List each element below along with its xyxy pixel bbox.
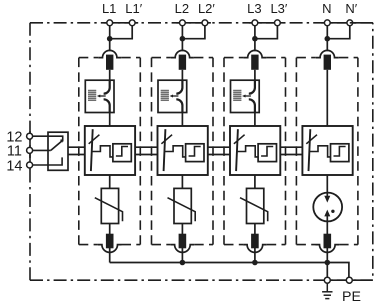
junction node L3 [252, 36, 258, 42]
wire spark gap to varistor channel 2 [181, 175, 183, 188]
thermal disconnector with status indicator channel 2 [158, 80, 187, 112]
terminal L3′ [275, 20, 281, 26]
protection module dashed box channel 2 [152, 57, 171, 59]
wire spark gap to varistor channel 3 [254, 175, 256, 188]
wire L2 terminal down to junction [181, 23, 183, 51]
remote signalling contact box [48, 132, 68, 170]
changeover contact arm [51, 141, 63, 151]
junction node bus channel 2 [180, 260, 186, 266]
wire varistor to bottom contact channel 1 [109, 224, 111, 235]
wire terminal 14 to NO contact [33, 157, 62, 165]
plug contact bottom channel 3 (thick bar) [251, 234, 259, 249]
terminal 12 [27, 133, 33, 139]
junction node N [325, 36, 331, 42]
svg-text:L2: L2 [175, 1, 189, 16]
triggered spark gap unit channel 2 [158, 126, 208, 175]
wire varistor to bottom contact channel 3 [254, 224, 256, 235]
terminal L2′ [202, 20, 208, 26]
bottom border solid segment to corner [327, 279, 373, 281]
terminal N [324, 20, 330, 26]
wire spark gap to N-PE gap channel 4 [326, 175, 328, 196]
svg-text:L2′: L2′ [198, 1, 215, 16]
svg-text:11: 11 [7, 144, 22, 160]
wire N′ to right border corner [350, 22, 373, 24]
wire N-PE gap to bottom contact channel 4 [326, 221, 328, 234]
wire terminal 11 to contact pivot [33, 149, 51, 151]
wire disconnector to spark gap channel 3 [254, 113, 256, 127]
protection module dashed box channel 4 [296, 57, 315, 59]
earth terminal [324, 277, 330, 283]
svg-text:N′: N′ [345, 1, 357, 16]
terminal PE [346, 277, 352, 283]
terminal 11 [27, 147, 33, 153]
svg-text:PE: PE [342, 289, 361, 304]
junction node L2 [180, 36, 186, 42]
protection module dashed box channel 1 [79, 57, 98, 59]
wire spark gap to varistor channel 1 [109, 175, 111, 188]
terminal L2 [180, 20, 186, 26]
protection module dashed box channel 3 [224, 57, 243, 59]
terminal L1 [107, 20, 113, 26]
wire contact to disconnector channel 3 [254, 70, 256, 81]
wire disconnector to spark gap channel 1 [109, 113, 111, 127]
wire L3-L3′ solid segment on top line [249, 22, 284, 24]
plug contact bottom channel 1 (thick bar) [106, 234, 114, 249]
svg-text:L3′: L3′ [270, 1, 287, 16]
wire L2′ terminal drop to junction [182, 23, 205, 39]
thermal disconnector with status indicator channel 1 [85, 80, 114, 112]
svg-text:L3: L3 [247, 1, 261, 16]
enclosure border (dash-dot outline of the protection device) [30, 22, 373, 24]
triggered spark gap unit channel 3 [230, 126, 280, 175]
junction node L1 [107, 36, 113, 42]
trigger bus wires linking spark gap units [68, 146, 85, 148]
wire L2-L2′ solid segment on top line [176, 22, 211, 24]
ground symbol [326, 283, 328, 291]
varistor channel 3 [247, 188, 264, 223]
junction node bus channel 3 [252, 260, 258, 266]
wire L1′ terminal drop to junction [110, 23, 133, 39]
wire bottom contact to PE bus channel 4 [326, 245, 328, 263]
varistor channel 2 [174, 188, 191, 223]
wire contact to disconnector channel 1 [109, 70, 111, 81]
plug contact top channel 4 (thick bar) [324, 55, 331, 70]
wire N′ terminal drop to junction [327, 23, 350, 39]
plug contact top channel 1 (thick bar) [106, 55, 113, 70]
triggered spark gap unit channel 1 [85, 126, 135, 175]
terminal 14 [27, 162, 33, 168]
wire bus down to earth terminal [326, 263, 328, 281]
wire bottom contact to PE bus channel 2 [181, 245, 183, 263]
terminal N′ [347, 20, 353, 26]
varistor channel 1 [101, 188, 118, 223]
wire varistor to bottom contact channel 2 [181, 224, 183, 235]
wire L1-L1′ solid segment on top line [104, 22, 139, 24]
plug contact top channel 2 (thick bar) [179, 55, 186, 70]
plug contact bottom channel 2 (thick bar) [179, 234, 187, 249]
wire disconnector to spark gap channel 2 [181, 113, 183, 127]
svg-text:N: N [322, 1, 331, 16]
thermal disconnector with status indicator channel 3 [231, 80, 260, 112]
terminal L1′ [129, 20, 135, 26]
wire L3 terminal down to junction [254, 23, 256, 51]
wire bottom contact to PE bus channel 3 [254, 245, 256, 263]
wire L3′ terminal drop to junction [255, 23, 278, 39]
terminal L3 [252, 20, 258, 26]
triggered spark gap unit channel 4 [302, 126, 352, 175]
wire contact to spark gap channel 4 [326, 70, 328, 126]
svg-text:14: 14 [6, 158, 22, 174]
PE bus wire [110, 263, 349, 278]
left border solid segment at signalling terminals [29, 131, 31, 170]
plug contact top channel 3 (thick bar) [251, 55, 258, 70]
wire N terminal down to junction [326, 23, 328, 51]
svg-text:L1: L1 [102, 1, 116, 16]
N-PE spark gap (circle with opposing arrows) [313, 193, 342, 222]
wire terminal 12 to NC contact [33, 136, 63, 141]
junction node bus to PE [325, 260, 331, 266]
plug contact bottom channel 4 (thick bar) [324, 234, 332, 249]
wire bottom contact to PE bus channel 1 [109, 245, 111, 263]
wire contact to disconnector channel 2 [181, 70, 183, 81]
wire N-N′ solid segment on top line [321, 22, 356, 24]
wire L1 terminal down to junction [109, 23, 111, 51]
svg-text:L1′: L1′ [125, 1, 142, 16]
